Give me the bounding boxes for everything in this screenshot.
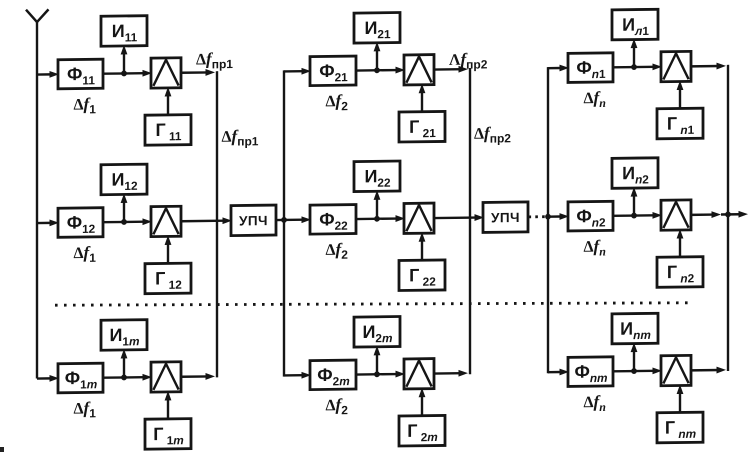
mixer (group 2 row m) (404, 359, 434, 389)
node junction n1 (631, 64, 637, 70)
wire Ф22 to mixer (356, 215, 405, 222)
wire Ф12 to mixer (103, 218, 152, 225)
indicator И1m (group 1 row m) (101, 320, 147, 351)
wire Ф1m to mixer (103, 374, 152, 381)
node bus junction row2 group 3 (545, 214, 551, 220)
oscillator Гn1 (group 3 row 1) (657, 108, 703, 139)
node junction 12 (121, 219, 127, 225)
oscillator Гnm (group 3 row m) (657, 412, 703, 443)
wire Ф21 to mixer (356, 67, 405, 74)
wire Г12 to mixer (165, 235, 172, 263)
wire junction to Иnm (631, 343, 638, 372)
filter Ф2m (group 2 row m) (310, 360, 356, 390)
wire Гnm to mixer (677, 384, 684, 412)
mixer (group 1 row 2) (151, 206, 181, 236)
wire distribution bus group 3 (547, 67, 549, 373)
indicator И12 (group 1 row 2) (101, 164, 147, 195)
wire mixer out row 2 group 1 (181, 217, 232, 224)
wire bus branch row1 group 3 (548, 64, 569, 71)
node bus junction row2 group 2 (281, 217, 287, 223)
indicator И22 (group 2 row 2) (354, 161, 400, 192)
label Δf1 (group 1 row m) (74, 398, 97, 420)
wire junction to И12 (121, 193, 128, 222)
filter Ф11 (group 1 row 1) (58, 59, 103, 89)
wire Ф11 to mixer (103, 70, 152, 77)
wire Г2m to mixer (419, 388, 426, 416)
wire collection bus group 2 (Δfпр2) (469, 68, 471, 374)
wire Г11 to mixer (165, 87, 172, 115)
oscillator Г2m (group 2 row m) (399, 415, 445, 446)
wire collection bus group 1 (Δfпр1) (216, 71, 218, 377)
filter Ф22 (group 2 row 2) (310, 205, 356, 235)
indicator Ил1 (group 3 row 1) (612, 9, 658, 40)
wire junction to Иn2 (631, 187, 638, 216)
wire Ф2m to mixer (356, 371, 405, 378)
oscillator Г21 (group 2 row 1) (399, 111, 445, 142)
wire junction to И11 (121, 45, 128, 74)
label Δf2 (group 2 row m) (326, 395, 349, 417)
label Δfn (group 3 row 2) (584, 236, 607, 258)
filter Фn1 (group 3 row 1) (568, 53, 613, 83)
wire collection bus group 3 (Δfпр3) (727, 65, 729, 371)
mixer (group 2 row 1) (404, 55, 434, 85)
wire mixer out row 1 group 3 (691, 63, 726, 70)
wire antenna feed row m (37, 375, 59, 382)
wire Г21 to mixer (419, 84, 426, 112)
wire mixer out row m group 2 (434, 370, 468, 377)
wire bus branch row2 group 2 (284, 216, 311, 223)
node junction nm (631, 368, 637, 374)
svg-text:УПЧ: УПЧ (491, 210, 520, 225)
filter Фnm (group 3 row m) (568, 357, 613, 387)
label Δf пр1 (bus) (222, 126, 259, 148)
wire Фn2 to mixer (613, 212, 662, 219)
IF amplifier УПЧ 2 (483, 202, 528, 233)
node junction n2 (631, 213, 637, 219)
wire Гn1 to mixer (677, 80, 684, 108)
node junction 22 (374, 216, 380, 222)
wire Г22 to mixer (419, 232, 426, 260)
filter Ф21 (group 2 row 1) (310, 56, 356, 86)
oscillator Г22 (group 2 row 2) (399, 260, 445, 291)
node junction 1m (121, 375, 127, 381)
wire bus branch row1 group 2 (284, 68, 311, 75)
wire junction to И22 (374, 190, 381, 219)
label Δf пр2 (bus) (474, 123, 511, 145)
wire УПЧ2 dotted continuation (529, 215, 549, 218)
wire Фnm to mixer (613, 367, 662, 374)
mixer (group 3 row 1) (661, 51, 691, 81)
dotted separator line between row 2 and row m (55, 303, 688, 305)
wire mixer out row m group 3 (691, 367, 726, 374)
mixer (group 1 row m) (151, 362, 181, 392)
filter Ф1m (group 1 row m) (58, 363, 103, 393)
filter Фn2 (group 3 row 2) (568, 201, 613, 231)
mixer (group 2 row 2) (404, 203, 434, 233)
indicator Иn2 (group 3 row 2) (612, 158, 658, 189)
wire junction to И2m (374, 346, 381, 375)
wire mixer out row 1 group 1 (181, 69, 215, 76)
label Δf пр1 (top) (196, 49, 233, 71)
oscillator Гn2 (group 3 row 2) (657, 257, 703, 288)
oscillator Г1m (group 1 row m) (145, 419, 191, 450)
label Δf2 (group 2 row 1) (326, 91, 349, 113)
wire antenna feed row 1 (37, 71, 59, 78)
label Δf2 (group 2 row 2) (326, 240, 349, 262)
oscillator Г11 (group 1 row 1) (145, 115, 191, 146)
wire distribution bus group 2 (283, 70, 285, 376)
antenna (26, 9, 49, 378)
node junction 11 (121, 71, 127, 77)
wire junction to И21 (374, 42, 381, 71)
wire УПЧ1 to bus2 (276, 219, 284, 222)
wire bus branch row2 group 3 (548, 213, 569, 220)
node output junction (725, 211, 731, 217)
node junction 2m (374, 371, 380, 377)
mixer (group 3 row m) (661, 355, 691, 385)
svg-text:УПЧ: УПЧ (239, 213, 268, 228)
label Λf пр2 (top) (449, 49, 488, 71)
mixer (group 3 row 2) (661, 200, 691, 230)
IF amplifier УПЧ 1 (231, 205, 276, 236)
wire junction to Ил1 (631, 39, 638, 68)
wire antenna feed row 2 (37, 219, 59, 226)
label Δf1 (group 1 row 1) (74, 94, 97, 116)
indicator И2m (group 2 row m) (354, 317, 400, 348)
wire mixer out row m group 1 (181, 373, 215, 380)
wire bus branch rowm group 3 (548, 368, 569, 375)
label Δf1 (group 1 row 2) (74, 243, 97, 265)
label Δfn (group 3 row 1) (584, 88, 607, 110)
filter Ф12 (group 1 row 2) (58, 208, 103, 238)
wire Г1m to mixer (165, 391, 172, 419)
scan speck bottom-left (0, 447, 4, 452)
wire bus branch rowm group 2 (284, 372, 311, 379)
oscillator Г12 (group 1 row 2) (145, 263, 191, 294)
wire mixer out row 2 group 3 to output (691, 211, 748, 219)
label Δfn (group 3 row m) (584, 392, 607, 414)
wire junction to И1m (121, 349, 128, 378)
indicator И21 (group 2 row 1) (354, 13, 400, 44)
wire mixer out row 2 group 2 (434, 214, 484, 221)
indicator И11 (group 1 row 1) (101, 16, 147, 47)
wire Гn2 to mixer (677, 229, 684, 257)
mixer (group 1 row 1) (151, 58, 181, 88)
wire mixer out row 1 group 2 (434, 66, 468, 73)
wire Фn1 to mixer (613, 63, 662, 70)
node junction 21 (374, 67, 380, 73)
indicator Иnm (group 3 row m) (612, 313, 658, 344)
